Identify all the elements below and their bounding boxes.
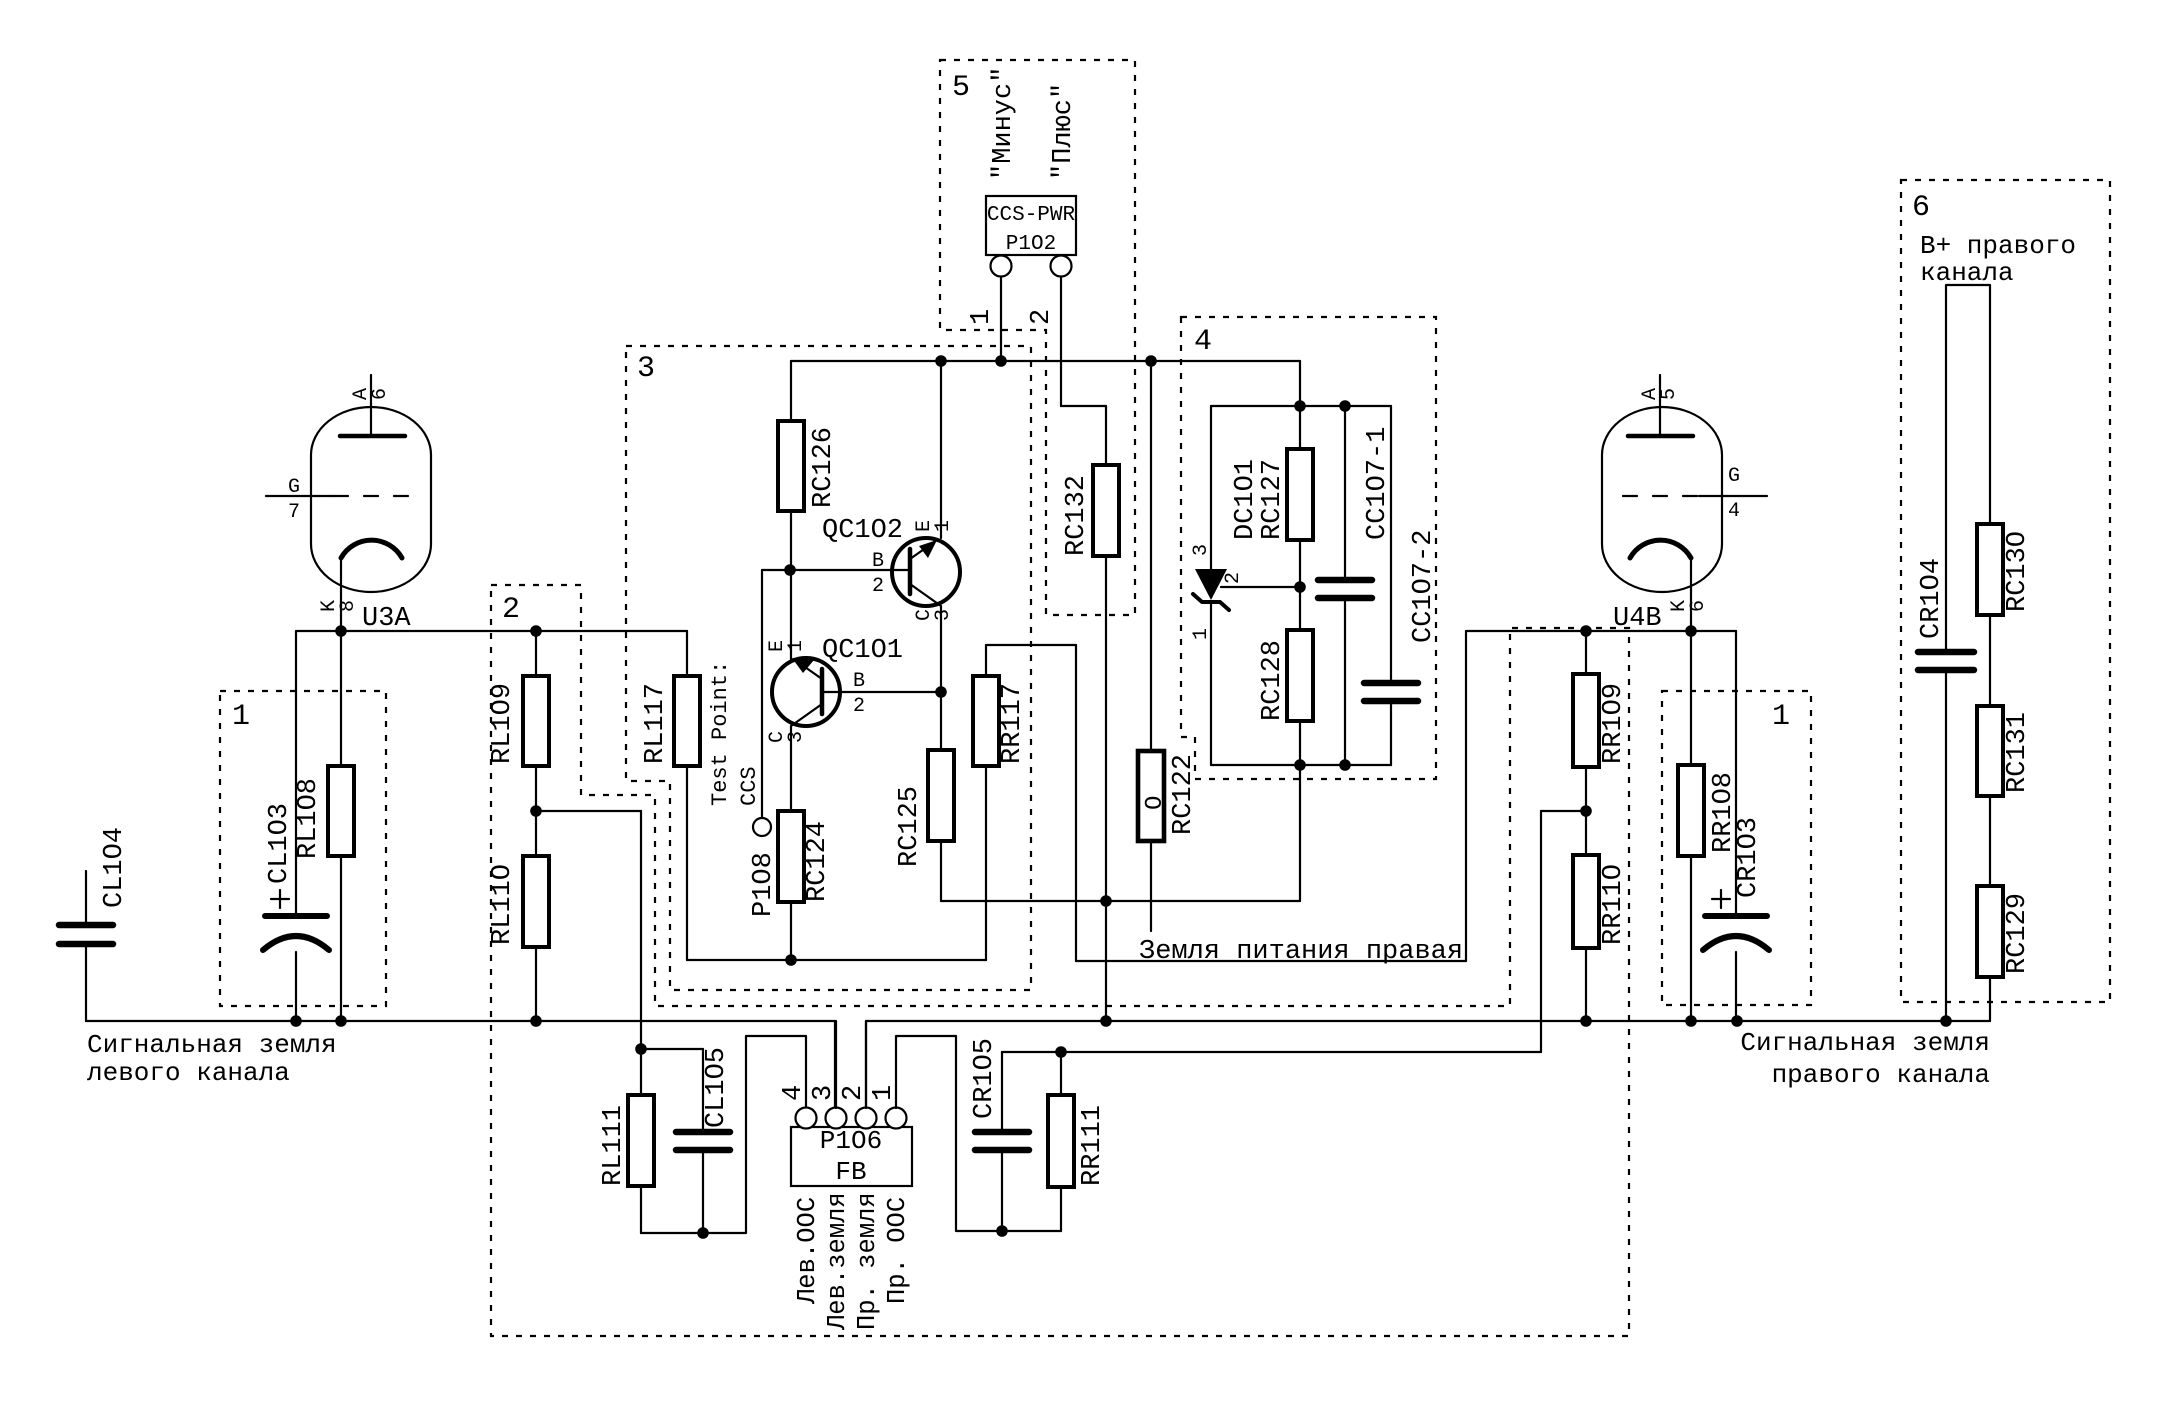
svg-text:1: 1 [1772,700,1790,734]
svg-text:правого канала: правого канала [1772,1060,1990,1090]
svg-text:O: O [1142,796,1169,810]
junction RR110 ground [1580,1015,1592,1027]
resistor RC132 [1062,465,1119,901]
junction RL111 top [635,1043,647,1055]
net label B+ right channel [1920,231,2076,288]
junction RR109 top [1580,625,1592,637]
U4B grid pin 4 [1623,465,1767,523]
test point P108 pin [753,818,771,836]
resistor RR111 [1048,1052,1108,1231]
svg-text:P1O8: P1O8 [749,852,779,917]
svg-text:2: 2 [1222,572,1245,584]
junction CL103 ground [290,1015,302,1027]
group box 1 right number [1772,700,1790,734]
U3A grid pin 7 [266,476,409,524]
QC102 emitter pin 1 [913,361,955,538]
svg-text:G: G [288,476,300,499]
svg-text:RC126: RC126 [809,427,839,508]
svg-text:Сигнальная земля: Сигнальная земля [87,1030,337,1060]
wire P106 pin4 to RL111 [703,1036,806,1233]
group box 4 number [1194,325,1212,359]
QC101 label [822,636,903,666]
group box 1 number [232,700,250,734]
svg-text:CL1O5: CL1O5 [702,1047,732,1128]
svg-text:Сигнальная земля: Сигнальная земля [1740,1028,1990,1058]
junction RL109/RL110 tap [530,805,542,817]
left signal ground rail [86,1020,835,1022]
dashed group box 6 [1901,180,2110,1002]
svg-text:G: G [1728,465,1740,488]
resistor RR108 [1678,631,1739,1021]
svg-text:8: 8 [337,600,360,612]
svg-text:CCS-PWR: CCS-PWR [987,204,1076,227]
U4B cathode rail wire [1466,631,1736,913]
svg-text:1: 1 [869,1085,899,1101]
QC102 label [822,516,903,546]
svg-text:3: 3 [809,1085,839,1101]
dashed group box 1 (right) [1662,691,1811,1005]
svg-text:DC1O1: DC1O1 [1231,459,1261,540]
net label power ground right [1139,937,1463,967]
P106 pin 1 [869,1085,907,1129]
connector P106 FB [791,1126,912,1187]
svg-text:1: 1 [967,309,997,325]
dashed group box 4 [1181,317,1436,779]
group box 3 number [637,352,655,386]
P106 pin name Lev.zemlya [823,1192,852,1331]
right signal ground rail [866,1020,1990,1022]
resistor RC128 [1258,540,1313,765]
svg-text:RC129: RC129 [2003,893,2033,974]
svg-text:QC1O1: QC1O1 [822,636,903,666]
svg-text:1: 1 [785,640,808,652]
junction CC107-1 top [1339,400,1351,412]
QC101 emitter pin 1 [766,570,808,659]
svg-text:RC131: RC131 [2003,712,2033,793]
junction CL105 bottom [697,1227,709,1239]
U4B label [1613,604,1662,634]
svg-text:RC127: RC127 [1258,459,1288,540]
resistor RL109 [488,631,549,811]
shunt regulator DC101 [1190,406,1300,765]
triode U3A body [311,407,431,592]
capacitor CC107-2 [1364,406,1439,765]
QC102 base pin 2 [872,550,884,598]
svg-text:CL1O3: CL1O3 [265,803,295,884]
P102 pin 1 [967,256,1012,362]
svg-text:CL1O4: CL1O4 [100,827,130,908]
junction RR109/RR110 tap [1580,805,1592,817]
feedback top wire [1002,1051,1541,1053]
svg-text:Пр. ООС: Пр. ООС [883,1197,912,1304]
box-3 bottom rail [687,959,986,961]
right ground rail drop to P106 pin2 [865,1021,867,1108]
svg-text:CR1O3: CR1O3 [1734,817,1764,898]
svg-text:B: B [853,670,865,693]
svg-text:"Минус": "Минус" [989,67,1019,180]
svg-text:4: 4 [779,1085,809,1101]
svg-text:3: 3 [1190,544,1213,556]
capacitor CL103 [263,631,329,1021]
dashed feedback group box 2 [491,585,1629,1336]
junction RL108 ground [335,1015,347,1027]
resistor RL117 [641,631,700,960]
capacitor CL104 [59,827,130,1021]
junction QC102 base node [784,564,796,576]
svg-text:CC1O7-2: CC1O7-2 [1409,530,1439,643]
U3A label [362,604,411,634]
P106 pin name Pr. OOS [883,1197,912,1304]
wire tap to RL111 column [536,811,641,1049]
junction RR111 top [1055,1046,1067,1058]
svg-text:7: 7 [288,501,300,524]
resistor RC122 [1138,361,1199,931]
svg-text:RR117: RR117 [998,683,1028,764]
svg-text:1: 1 [232,700,250,734]
junction QC102 emitter rail [935,355,947,367]
box4 output wire [1299,765,1301,901]
main positive rail [791,361,1300,406]
RC132 to ground [1105,901,1107,1021]
junction CR104 ground [1940,1015,1952,1027]
QC101 base pin 2 [853,670,865,718]
svg-text:2: 2 [502,593,520,627]
resistor RR110 [1573,811,1629,1021]
junction RC132 bottom [1100,895,1112,907]
junction RL109 top [530,625,542,637]
svg-text:CC1O7-1: CC1O7-1 [1363,427,1393,540]
svg-text:RC128: RC128 [1258,640,1288,721]
resistor RC127 [1231,406,1313,540]
test point label [708,661,779,917]
svg-text:2: 2 [872,575,884,598]
svg-text:Test Point:: Test Point: [708,661,733,806]
svg-text:3: 3 [932,609,955,621]
svg-text:U3A: U3A [362,604,411,634]
svg-text:4: 4 [1194,325,1212,359]
svg-text:RL117: RL117 [641,683,671,764]
resistor RL111 [599,1049,654,1233]
U3A cathode rail wire [297,630,687,632]
resistor RC130 [1977,524,2033,706]
svg-text:RC13O: RC13O [2003,531,2033,612]
junction P102 pin1 rail [995,355,1007,367]
group box 2 number [502,593,520,627]
svg-text:1: 1 [1190,628,1213,640]
junction QC101 base [935,686,947,698]
svg-text:3: 3 [637,352,655,386]
wire RC125 bottom to box4 [941,900,1300,902]
resistor RC131 [1977,706,2033,886]
capacitor CC107-1 [1318,406,1393,765]
resistor RR117 [973,645,1028,960]
svg-text:1: 1 [932,520,955,532]
resistor RC124 [778,811,833,960]
P106 pin name Pr. zemlya [853,1192,882,1330]
U3A cathode pin 8 [318,540,402,631]
svg-text:2: 2 [853,695,865,718]
wire base node to test point [762,570,790,819]
svg-text:RC124: RC124 [803,821,833,902]
wire RL111 to CL105 [641,1049,703,1233]
junction RC132 ground [1100,1015,1112,1027]
net label left signal ground [87,1030,337,1088]
triode U4B body [1602,407,1722,592]
svg-text:RR1O9: RR1O9 [1599,683,1629,764]
junction RL110 ground [530,1015,542,1027]
wire P106 pin1 to CR105/RR111 [896,1036,1061,1231]
svg-text:RL1O8: RL1O8 [294,778,324,859]
junction RC124 bottom [785,954,797,966]
capacitor CR103 [1703,817,1769,1021]
svg-text:B: B [872,550,884,573]
QC101 collector pin 3 [766,726,808,811]
svg-text:2: 2 [839,1085,869,1101]
resistor RL108 [294,631,354,1021]
junction CC107-1 bottom [1339,759,1351,771]
svg-text:4: 4 [1728,500,1740,523]
transistor QC102 [790,538,960,606]
svg-text:QC1O2: QC1O2 [822,516,903,546]
svg-text:B+ правого: B+ правого [1920,231,2076,261]
U3A anode pin 6 [340,375,405,436]
svg-text:FB: FB [835,1157,866,1187]
B+ loop wire [1946,285,1990,649]
net label right signal ground [1740,1028,1990,1090]
capacitor CR105 [970,1038,1029,1231]
QC102 collector pin 3 [913,606,955,692]
box4 bottom inner rail [1211,764,1391,766]
svg-text:канала: канала [1920,258,2014,288]
group box 5 number [952,71,970,105]
svg-text:CCS: CCS [737,766,762,806]
dashed group box 1 (left) [220,691,386,1006]
P106 pin 2 [839,1021,877,1129]
svg-text:6: 6 [369,388,392,400]
capacitor CL105 [676,1047,732,1233]
wire RR117 top to right ground [986,631,1466,961]
svg-text:6: 6 [1912,191,1930,225]
svg-text:RC132: RC132 [1062,475,1092,556]
resistor RL110 [488,811,549,1021]
svg-text:5: 5 [952,71,970,105]
transistor QC101 [772,658,941,726]
svg-text:3: 3 [785,731,808,743]
resistor RC125 [895,692,954,901]
box4 top inner rail [1211,405,1391,407]
svg-text:RL111: RL111 [599,1105,629,1186]
P106 pin 4 [779,1085,817,1129]
svg-text:левого канала: левого канала [87,1058,290,1088]
wire tap to feedback [1541,811,1586,1052]
svg-text:2: 2 [1027,309,1057,325]
dashed group box 5 [940,60,1135,615]
junction RR108 ground [1685,1015,1697,1027]
junction RC127 top [1294,400,1306,412]
resistor RC126 [778,361,839,570]
svg-text:Лев.земля: Лев.земля [823,1192,852,1331]
svg-text:6: 6 [1687,600,1710,612]
svg-text:"Плюс": "Плюс" [1049,83,1079,180]
svg-text:Земля питания правая: Земля питания правая [1139,937,1463,967]
svg-text:CR1O4: CR1O4 [1917,558,1947,639]
junction U3A cathode [335,625,347,637]
group box 6 number [1912,191,1930,225]
U4B anode pin 5 [1628,375,1693,436]
P102 pin name Plus [1049,83,1079,180]
U4B cathode pin 6 [1630,540,1710,631]
resistor RR109 [1573,631,1629,811]
svg-text:RC125: RC125 [895,786,925,867]
svg-text:RC122: RC122 [1169,754,1199,835]
svg-text:P1O2: P1O2 [1006,233,1056,256]
svg-text:P1O6: P1O6 [820,1126,882,1156]
svg-text:RR11O: RR11O [1599,864,1629,945]
junction CR103 ground [1731,1015,1743,1027]
junction CR105 bottom [996,1225,1008,1237]
P106 pin name Lev.OOS [793,1197,822,1305]
svg-text:RL11O: RL11O [488,864,518,945]
svg-text:RR111: RR111 [1078,1105,1108,1186]
svg-text:U4B: U4B [1613,604,1662,634]
dashed group box 3 [626,346,1031,990]
connector P102 CCS-PWR [986,196,1076,256]
junction RC122 rail [1145,355,1157,367]
junction RC128 bottom [1294,759,1306,771]
left ground rail drop to P106 pin3 [834,1021,836,1108]
P102 pin 2 [1027,256,1106,466]
resistor RC129 [1977,886,2033,1021]
svg-text:CR1O5: CR1O5 [970,1038,1000,1119]
capacitor CR104 [1917,558,1974,1021]
junction DC101 ref [1294,581,1306,593]
P106 pin 3 [809,1021,847,1129]
svg-text:5: 5 [1658,388,1681,400]
svg-text:RL1O9: RL1O9 [488,683,518,764]
junction U4B cathode [1685,625,1697,637]
P102 pin name Minus [989,67,1019,180]
svg-text:Пр. земля: Пр. земля [853,1192,882,1330]
svg-text:Лев.ООС: Лев.ООС [793,1197,822,1305]
